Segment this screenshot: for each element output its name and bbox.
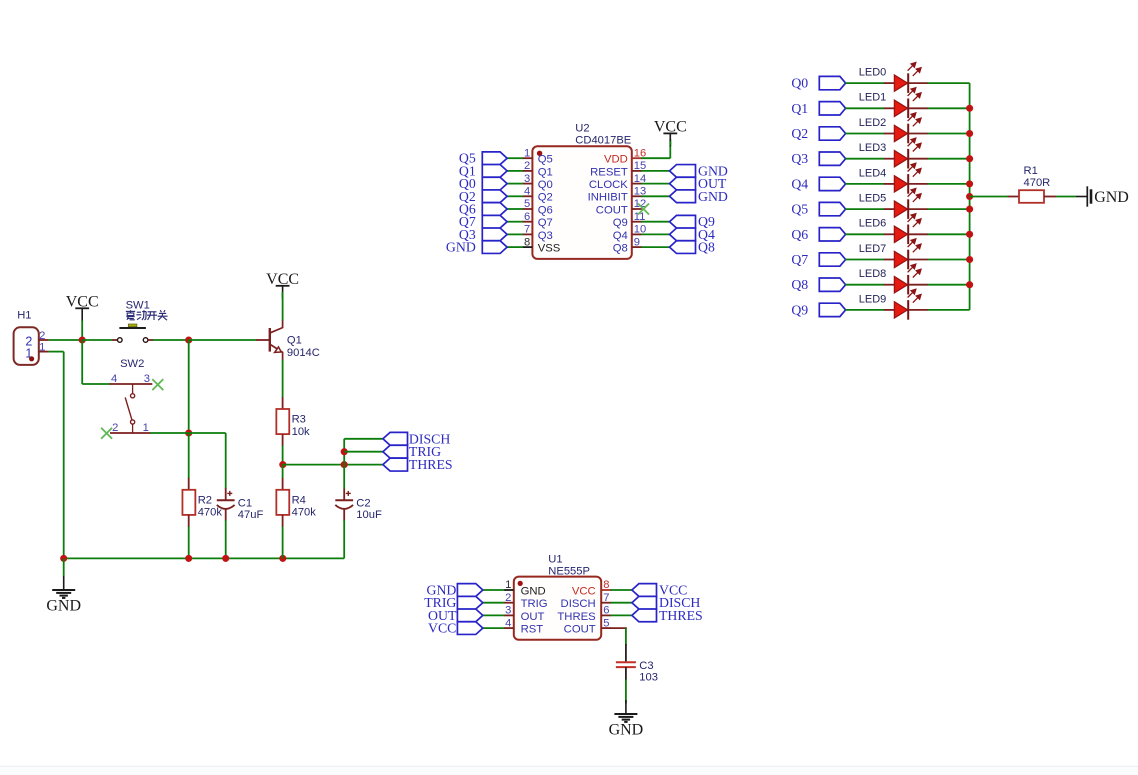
U2 pin 7 Q3 [522, 233, 532, 235]
LED3 [859, 138, 928, 168]
wire (U1 pin 5 to C3) [611, 627, 626, 630]
power VCC (left) [66, 293, 99, 340]
C2 bottom lead [343, 509, 345, 521]
port GND (U1 pin 1) [426, 583, 482, 598]
wire [970, 196, 1008, 198]
no-connect X on SW2 pin 2 [101, 428, 112, 439]
no-connect X on SW2 pin 3 [152, 379, 163, 390]
connector H1 body [14, 327, 39, 365]
U2 pin 3 Q0 [522, 183, 532, 185]
svg-text:Q6: Q6 [538, 204, 553, 216]
wire [507, 233, 523, 235]
svg-text:RESET: RESET [590, 166, 628, 178]
LED0 [859, 63, 928, 93]
port Q5 (LED5) [791, 202, 845, 217]
wire [845, 82, 884, 84]
svg-text:GND: GND [609, 722, 644, 739]
svg-text:THRES: THRES [409, 457, 453, 472]
transistor Q1 9014C [256, 321, 283, 361]
port Q0 (LED0) [791, 76, 845, 91]
power GND (under C3) [614, 700, 637, 722]
svg-text:VCC: VCC [66, 293, 99, 310]
svg-text:VDD: VDD [604, 154, 628, 166]
port TRIG (left circuit) [383, 444, 441, 459]
resistor R1 470R [1008, 165, 1056, 203]
svg-text:2: 2 [112, 422, 118, 434]
svg-text:1: 1 [505, 579, 511, 591]
svg-text:Q9: Q9 [791, 302, 808, 317]
junction [341, 461, 348, 468]
svg-text:LED6: LED6 [859, 218, 887, 230]
svg-text:2: 2 [524, 160, 530, 172]
LED8 [859, 264, 928, 294]
svg-text:Q5: Q5 [791, 202, 808, 217]
wire [343, 520, 345, 558]
port OUT (U2 pin 14) [670, 176, 727, 191]
resistor R2 470k lead [188, 478, 190, 490]
svg-text:47uF: 47uF [238, 509, 264, 521]
wire [641, 246, 669, 248]
svg-text:R2: R2 [198, 495, 212, 507]
svg-text:CD4017BE: CD4017BE [575, 134, 631, 146]
wire [189, 432, 226, 434]
junction [79, 336, 86, 343]
wire [928, 183, 970, 185]
wire [82, 383, 109, 385]
no-connect X on U2 pin 12 [638, 204, 649, 215]
wire [928, 233, 970, 235]
junction [966, 130, 973, 137]
wire [49, 351, 64, 353]
svg-text:VCC: VCC [266, 271, 299, 288]
junction [966, 206, 973, 213]
junction [279, 555, 286, 562]
svg-text:6: 6 [603, 605, 609, 617]
IC U1 NE555P body [514, 577, 601, 640]
wire [82, 339, 112, 341]
svg-text:3: 3 [505, 605, 511, 617]
R2 bottom lead [188, 515, 190, 527]
svg-text:5: 5 [524, 198, 530, 210]
svg-text:GND: GND [698, 189, 728, 204]
wire [507, 195, 523, 197]
U2 pin 5 Q6 [522, 208, 532, 210]
resistor R4 body [276, 490, 316, 519]
port GND (U2 pin 8) [446, 240, 507, 255]
svg-text:GND: GND [521, 585, 546, 597]
port Q8 (LED8) [791, 277, 845, 292]
R3 bottom lead [282, 434, 284, 446]
svg-text:Q8: Q8 [698, 240, 715, 255]
svg-text:Q2: Q2 [538, 192, 553, 204]
wire [845, 259, 884, 261]
resistor R3 10k lead [282, 397, 284, 409]
junction [222, 555, 229, 562]
svg-text:7: 7 [603, 592, 609, 604]
svg-text:Q5: Q5 [538, 154, 553, 166]
wire [282, 465, 284, 479]
wire [845, 183, 884, 185]
junction [185, 555, 192, 562]
port Q4 (U2 pin 10) [670, 227, 715, 242]
svg-text:LED9: LED9 [859, 293, 887, 305]
svg-text:1: 1 [524, 147, 530, 159]
wire [188, 340, 190, 433]
U2 pin 8 VSS [522, 246, 532, 248]
power VCC (U2) [654, 118, 687, 146]
capacitor C1 top lead [225, 488, 227, 500]
wire [625, 680, 627, 704]
svg-text:INHIBIT: INHIBIT [588, 192, 628, 204]
wire [282, 527, 284, 559]
capacitor C3 103 [616, 662, 636, 667]
power GND (right, bar style) [1076, 186, 1129, 206]
wire [611, 602, 632, 604]
wire [845, 133, 884, 135]
svg-text:CLOCK: CLOCK [589, 179, 628, 191]
wire [611, 614, 632, 616]
svg-text:Q4: Q4 [613, 230, 628, 242]
port Q2 (U2 pin 4) [459, 189, 507, 204]
U2 pin 4 Q2 [522, 195, 532, 197]
svg-text:3: 3 [144, 373, 150, 385]
svg-text:LED1: LED1 [859, 92, 887, 104]
U2 pin 14 CLOCK [632, 183, 642, 185]
svg-text:7: 7 [524, 224, 530, 236]
wire [63, 352, 65, 559]
wire [225, 520, 227, 558]
port DISCH (left circuit) [383, 431, 450, 446]
wire [1056, 196, 1076, 198]
port GND (U2 pin 13) [670, 189, 728, 204]
svg-text:U1: U1 [548, 554, 562, 566]
LED9 [859, 289, 928, 319]
H1 pin-1 dot [29, 356, 34, 361]
svg-text:THRES: THRES [659, 608, 703, 623]
svg-text:9: 9 [634, 236, 640, 248]
U2 pin 15 RESET [632, 170, 642, 172]
wire [611, 589, 632, 591]
svg-text:Q8: Q8 [613, 243, 628, 255]
svg-text:Q7: Q7 [791, 252, 808, 267]
svg-text:Q0: Q0 [791, 76, 808, 91]
U1 pin 6 THRES [601, 614, 611, 616]
port Q6 (LED6) [791, 227, 845, 242]
wire [928, 107, 970, 109]
wire [641, 233, 669, 235]
resistor R2 body [182, 490, 222, 519]
svg-text:LED3: LED3 [859, 142, 887, 154]
switch SW1 (vibration switch) [112, 324, 153, 342]
wire [928, 309, 970, 311]
wire [283, 464, 383, 466]
wire [641, 157, 670, 159]
wire [641, 170, 669, 172]
LED cathode bus wire [969, 83, 971, 310]
svg-text:2: 2 [39, 330, 45, 342]
wire [928, 82, 970, 84]
U2 pin 10 Q4 [632, 233, 642, 235]
svg-text:SW2: SW2 [120, 358, 144, 370]
junction [966, 193, 973, 200]
svg-text:Q1: Q1 [538, 166, 553, 178]
svg-text:VCC: VCC [572, 585, 596, 597]
svg-text:1: 1 [143, 422, 149, 434]
U2 pin-1 dot [537, 151, 542, 156]
svg-text:VSS: VSS [538, 243, 561, 255]
svg-text:OUT: OUT [521, 611, 545, 623]
junction [966, 231, 973, 238]
svg-text:Q3: Q3 [538, 230, 553, 242]
svg-text:8: 8 [524, 236, 530, 248]
wire [928, 284, 970, 286]
wire [188, 433, 190, 479]
C1 bottom lead [225, 509, 227, 521]
wire [845, 233, 884, 235]
bottom GND rail wire [64, 557, 345, 559]
port Q4 (LED4) [791, 176, 845, 191]
svg-text:LED8: LED8 [859, 268, 887, 280]
svg-text:2: 2 [505, 592, 511, 604]
resistor R4 470k lead [282, 478, 284, 490]
svg-text:Q2: Q2 [791, 126, 808, 141]
port VCC (U1 pin 8) [632, 583, 687, 598]
wire [928, 208, 970, 210]
port THRES (U1 pin 6) [632, 608, 703, 623]
svg-text:10uF: 10uF [356, 509, 382, 521]
port VCC (U1 pin 4) [428, 621, 483, 636]
svg-text:SW1: SW1 [126, 300, 150, 312]
svg-text:C3: C3 [639, 660, 653, 672]
wire [481, 614, 504, 616]
port Q7 (LED7) [791, 252, 845, 267]
svg-text:THRES: THRES [557, 611, 596, 623]
svg-text:GND: GND [1094, 189, 1129, 206]
junction [185, 429, 192, 436]
svg-text:R3: R3 [292, 414, 306, 426]
resistor R3 body [276, 409, 310, 438]
junction [966, 155, 973, 162]
power VCC (Q1) [266, 271, 299, 299]
port Q1 (LED1) [791, 101, 845, 116]
svg-text:1: 1 [39, 342, 45, 354]
wire [845, 208, 884, 210]
H1 pin 2 [39, 339, 49, 341]
wire [507, 246, 523, 248]
port OUT (U1 pin 3) [428, 608, 483, 623]
svg-text:6: 6 [524, 211, 530, 223]
wire [343, 465, 345, 489]
junction [279, 461, 286, 468]
wire [344, 438, 383, 440]
svg-text:Q4: Q4 [791, 176, 808, 191]
capacitor C2 top lead [343, 489, 345, 501]
wire [507, 221, 523, 223]
port THRES (left circuit) [383, 457, 453, 472]
U2 pin 12 COUT [632, 208, 642, 210]
port Q3 (U2 pin 7) [459, 227, 507, 242]
junction [60, 555, 67, 562]
svg-text:GND: GND [446, 240, 476, 255]
svg-text:Q8: Q8 [791, 277, 808, 292]
wire [481, 602, 504, 604]
svg-text:LED5: LED5 [859, 193, 887, 205]
svg-text:LED4: LED4 [859, 167, 887, 179]
svg-text:VCC: VCC [428, 621, 456, 636]
port Q7 (U2 pin 6) [459, 214, 507, 229]
svg-text:Q9: Q9 [613, 217, 628, 229]
svg-text:H1: H1 [17, 310, 31, 322]
switch SW2 [109, 384, 152, 433]
svg-text:4: 4 [505, 617, 511, 629]
wire [928, 259, 970, 261]
port Q0 (U2 pin 3) [459, 176, 507, 191]
svg-text:TRIG: TRIG [521, 598, 548, 610]
svg-text:8: 8 [603, 579, 609, 591]
U1 pin 4 RST [504, 627, 514, 629]
junction [966, 256, 973, 263]
wire [481, 627, 504, 629]
svg-text:470k: 470k [292, 507, 317, 519]
LED6 [859, 214, 928, 244]
svg-text:C2: C2 [356, 498, 370, 510]
port Q9 (U2 pin 11) [670, 214, 715, 229]
svg-text:5: 5 [603, 617, 609, 629]
wire [641, 221, 669, 223]
svg-text:4: 4 [524, 186, 530, 198]
port Q1 (U2 pin 2) [459, 163, 507, 178]
port Q3 (LED3) [791, 151, 845, 166]
port GND (U2 pin 15) [670, 163, 728, 178]
svg-text:GND: GND [46, 598, 81, 615]
port Q9 (LED9) [791, 302, 845, 317]
junction [966, 105, 973, 112]
wire [150, 432, 189, 434]
svg-text:Q7: Q7 [538, 217, 553, 229]
svg-text:470k: 470k [198, 507, 223, 519]
U1 pin 2 TRIG [504, 602, 514, 604]
port Q2 (LED2) [791, 126, 845, 141]
wire [845, 158, 884, 160]
svg-text:Q3: Q3 [791, 151, 808, 166]
U1 pin 3 OUT [504, 614, 514, 616]
svg-text:NE555P: NE555P [548, 566, 590, 578]
wire [282, 292, 284, 321]
C3 bottom lead [625, 667, 627, 680]
U2 pin 9 Q8 [632, 246, 642, 248]
LED7 [859, 239, 928, 269]
wire [81, 340, 83, 384]
port Q6 (U2 pin 5) [459, 202, 507, 217]
svg-text:RST: RST [521, 624, 544, 636]
svg-text:U2: U2 [575, 122, 589, 134]
junction [966, 180, 973, 187]
wire [188, 527, 190, 559]
svg-text:LED7: LED7 [859, 243, 887, 255]
svg-text:COUT: COUT [564, 624, 596, 636]
svg-text:COUT: COUT [596, 204, 628, 216]
svg-text:9014C: 9014C [287, 347, 320, 359]
wire [669, 139, 671, 158]
svg-text:R1: R1 [1024, 165, 1038, 177]
svg-text:3: 3 [524, 173, 530, 185]
wire [343, 439, 345, 465]
wire [344, 451, 383, 453]
port TRIG (U1 pin 2) [424, 595, 483, 610]
H1 pin 1 [39, 351, 49, 353]
svg-text:103: 103 [639, 672, 658, 684]
wire [153, 339, 189, 341]
sheet bottom edge [0, 767, 1138, 775]
svg-text:DISCH: DISCH [561, 598, 596, 610]
U2 pin 11 Q9 [632, 221, 642, 223]
wire [507, 157, 523, 159]
U2 pin 1 Q5 [522, 157, 532, 159]
capacitor C1 body [217, 491, 235, 509]
U1 pin 7 DISCH [601, 602, 611, 604]
wire [507, 183, 523, 185]
IC U2 CD4017BE body [532, 146, 631, 259]
U1 pin 5 COUT [601, 627, 611, 629]
svg-text:LED0: LED0 [859, 67, 887, 79]
wire [928, 133, 970, 135]
LED1 [859, 88, 928, 118]
port DISCH (U1 pin 7) [632, 595, 701, 610]
junction [185, 336, 192, 343]
R4 bottom lead [282, 515, 284, 527]
svg-text:Q6: Q6 [791, 227, 808, 242]
svg-text:Q1: Q1 [791, 101, 808, 116]
wire [845, 284, 884, 286]
wire [641, 195, 669, 197]
svg-text:Q0: Q0 [538, 179, 553, 191]
U2 pin 13 INHIBIT [632, 195, 642, 197]
svg-text:Q1: Q1 [287, 335, 302, 347]
power GND (bottom left) [52, 576, 75, 598]
wire [845, 309, 884, 311]
wire [507, 170, 523, 172]
wire [845, 107, 884, 109]
junction [966, 281, 973, 288]
wire [282, 446, 284, 465]
capacitor C2 body [335, 491, 353, 509]
svg-text:10k: 10k [292, 426, 310, 438]
U2 pin 2 Q1 [522, 170, 532, 172]
wire [641, 183, 669, 185]
svg-text:VCC: VCC [654, 118, 687, 135]
svg-text:4: 4 [111, 373, 117, 385]
wire [481, 589, 504, 591]
U2 pin 6 Q7 [522, 221, 532, 223]
svg-text:C1: C1 [238, 498, 252, 510]
svg-text:470R: 470R [1024, 177, 1051, 189]
wire [625, 628, 627, 645]
svg-text:LED2: LED2 [859, 117, 887, 129]
wire [189, 339, 257, 341]
junction [341, 448, 348, 455]
wire [507, 208, 523, 210]
LED4 [859, 163, 928, 193]
port Q5 (U2 pin 1) [459, 151, 507, 166]
port Q8 (U2 pin 9) [670, 240, 715, 255]
wire [282, 360, 284, 398]
U1 pin 8 VCC [601, 589, 611, 591]
LED5 [859, 189, 928, 219]
SW1 comment 震动开关 [126, 310, 168, 320]
wire [225, 433, 227, 489]
U1 pin-1 dot [518, 581, 523, 586]
U2 pin 16 VDD [632, 157, 642, 159]
